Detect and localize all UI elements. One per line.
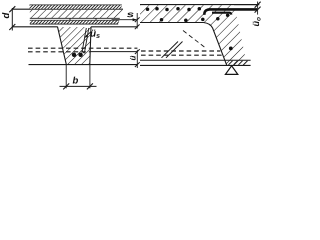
right dimension vertical: [257, 2, 259, 15]
tick at slab top: [255, 2, 261, 8]
rebar dot 1: [72, 53, 76, 57]
interface line with jogs: [30, 19, 119, 21]
tick bottom of d: [9, 24, 15, 30]
tick at soffit: [135, 62, 140, 67]
dashed bar line A: [28, 47, 137, 49]
right slab top line: [140, 4, 259, 6]
stirrup outer line: [85, 28, 89, 52]
hidden haunch dashed diagonal: [183, 31, 205, 48]
soffit line: [29, 64, 138, 66]
support triangle: [225, 66, 237, 75]
tick at bar line: [135, 49, 140, 54]
b dimension line: [60, 85, 97, 87]
rib left slope: [58, 27, 67, 65]
right slab bottom line and haunch edge: [140, 23, 227, 66]
slab hatch bottom line: [30, 17, 120, 19]
bent-up bar 1: [162, 42, 179, 58]
svg-text:d: d: [1, 13, 12, 19]
stirrup inner line: [82, 28, 86, 51]
us leader arrow: [85, 32, 90, 37]
dashed bottom bar 2: [141, 54, 222, 56]
bar line B right solid: [90, 51, 137, 53]
screed dense band: [30, 5, 123, 8]
dashed bar line B left: [28, 51, 90, 53]
stirrup bottom hook: [82, 51, 85, 53]
b tick right: [87, 83, 93, 89]
mid lower dimension vertical: [136, 50, 138, 68]
jog 1: [69, 18, 71, 20]
bar dot in haunch: [229, 47, 233, 51]
dashed bottom bar 1: [141, 50, 220, 52]
tick top of d: [9, 6, 15, 12]
screed top line: [30, 4, 122, 6]
mid upper dimension vertical: [136, 13, 138, 29]
dimension d vertical line: [11, 8, 13, 31]
us arrowhead: [85, 35, 88, 38]
svg-text:ü: ü: [129, 56, 138, 61]
slab top line: [12, 8, 123, 10]
svg-text:b: b: [72, 75, 78, 86]
lower band bottom line: [30, 23, 118, 25]
mid upper arrow line: [112, 19, 137, 21]
second top bar layer: [212, 13, 231, 15]
hatch strokes between soffit lines at support: [229, 61, 248, 65]
rib right slope: [90, 27, 91, 65]
slab dots upper row: [146, 7, 201, 11]
lower soffit line: [140, 64, 251, 66]
slab bottom line left segment: [12, 26, 57, 28]
slab dots lower row: [160, 14, 230, 22]
b extension line left: [65, 65, 67, 88]
b extension line right: [89, 65, 91, 88]
tick at bottom line end: [135, 24, 140, 29]
mid upper arrowhead: [133, 18, 137, 21]
slab concrete hatch band: [30, 10, 123, 18]
lower dense band: [30, 21, 119, 24]
slab bottom line right segment to mid dimension: [91, 26, 137, 28]
jog 2: [95, 18, 97, 20]
tick on arrow: [135, 17, 140, 22]
b tick left: [63, 83, 69, 89]
rebar dot 2: [78, 53, 82, 57]
top bar thick with hook: [204, 9, 257, 14]
bent-up bar 2: [166, 42, 183, 58]
upper soffit line: [140, 59, 251, 61]
svg-text:s: s: [127, 9, 135, 19]
tick at top bar: [255, 7, 261, 13]
rib hatch fill: [58, 27, 91, 64]
right concrete hatch region (slab + haunch + support): [140, 5, 248, 65]
